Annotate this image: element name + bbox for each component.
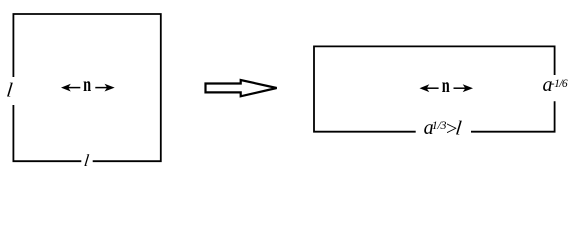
right rectangle box outline (bottom-right segment and lower-right side) xyxy=(471,101,555,131)
left arrow of n-label in square xyxy=(61,84,80,92)
big hollow block arrow between boxes xyxy=(206,80,277,96)
right rectangle box outline (top, left, bottom-left segment) xyxy=(314,46,555,131)
left arrow of n-label in rectangle xyxy=(420,84,439,92)
svg-text:n: n xyxy=(83,73,91,96)
left square box outline (top, right, bottom-right segment) xyxy=(13,14,160,161)
right arrow of n-label in rectangle xyxy=(454,84,474,92)
right arrow of n-label in square xyxy=(95,84,114,92)
left square box outline (bottom-left segment and lower-left side) xyxy=(13,105,81,161)
svg-text:l: l xyxy=(83,151,90,170)
svg-text:n: n xyxy=(442,73,450,96)
svg-text:-1/6: -1/6 xyxy=(551,78,568,90)
svg-text:l: l xyxy=(5,79,14,101)
